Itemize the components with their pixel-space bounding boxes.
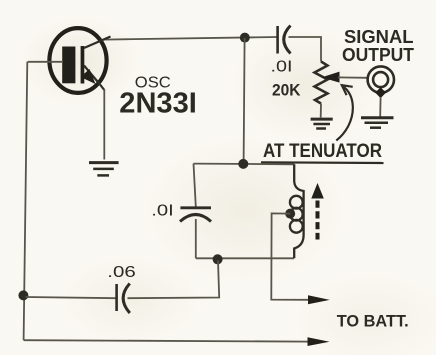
capacitor C2 .01 tank plates bbox=[180, 208, 211, 222]
svg-text:.0I: .0I bbox=[271, 59, 293, 76]
wire: wiper to jack bbox=[338, 76, 368, 78]
junction dot tank top bbox=[238, 159, 248, 169]
wire: pot to ground bbox=[320, 104, 322, 118]
wire: vertical from node A down to tank top bbox=[244, 38, 245, 164]
potentiometer wiper arrow bbox=[322, 72, 340, 83]
arrowhead bottom rail bbox=[308, 337, 330, 346]
svg-text:2N33I: 2N33I bbox=[119, 88, 196, 120]
wire: left rail vertical bbox=[24, 62, 28, 340]
transistor Q1 emitter lead with arrow bbox=[81, 66, 105, 91]
junction dot left rail bbox=[18, 290, 28, 300]
wire: C2 bottom lead bbox=[195, 219, 197, 258]
ground under emitter bbox=[89, 163, 119, 176]
wire: tank top bbox=[194, 163, 295, 166]
ground under jack bbox=[361, 118, 394, 128]
wire: tank left branch down to C2 bbox=[194, 164, 196, 207]
wire: coil tap to battery arrow bbox=[271, 213, 309, 299]
wire: .06 branch right segment up to tank bbox=[128, 261, 220, 299]
node A junction dot on top wire bbox=[240, 33, 250, 43]
capacitor C1 .01 plates bbox=[278, 26, 291, 54]
svg-text:.0I: .0I bbox=[151, 203, 174, 220]
capacitor C3 .06 plates bbox=[117, 284, 130, 314]
wire: tank bottom bbox=[196, 257, 294, 259]
wire: C1 to potentiometer bbox=[289, 37, 322, 62]
svg-text:OUTPUT: OUTPUT bbox=[342, 45, 414, 65]
svg-text:TO BATT.: TO BATT. bbox=[337, 312, 409, 331]
inductor L1 coil bbox=[290, 164, 304, 258]
potentiometer R1 20K zigzag bbox=[315, 62, 328, 104]
tap junction dot on coil bbox=[285, 209, 295, 219]
transistor Q1 circle bbox=[49, 28, 106, 93]
wire: emitter to ground bbox=[103, 89, 105, 160]
wire: bottom rail to battery bbox=[24, 340, 310, 341]
wire: jack to ground bbox=[379, 97, 381, 117]
arrowhead tap wire bbox=[308, 295, 330, 304]
transistor Q1 base bar bbox=[62, 46, 84, 84]
svg-text:SIGNAL: SIGNAL bbox=[344, 27, 414, 47]
svg-text:AT TENUATOR: AT TENUATOR bbox=[263, 140, 382, 162]
dashed tuning arrow bbox=[311, 183, 324, 240]
wire: .06 branch left segment bbox=[26, 297, 117, 298]
jack J1 SIGNAL OUTPUT bbox=[368, 66, 394, 98]
wire: top collector wire bbox=[104, 37, 278, 40]
wire: base lead from left rail bbox=[28, 61, 64, 63]
curved adjustment arrow bbox=[336, 85, 353, 140]
underline for AT TENUATOR bbox=[261, 161, 384, 164]
junction dot tank bottom bbox=[213, 254, 223, 264]
ground under potentiometer bbox=[311, 119, 333, 128]
svg-text:.06: .06 bbox=[107, 264, 136, 281]
svg-text:20K: 20K bbox=[272, 81, 301, 100]
transistor Q1 collector lead bbox=[84, 37, 111, 49]
